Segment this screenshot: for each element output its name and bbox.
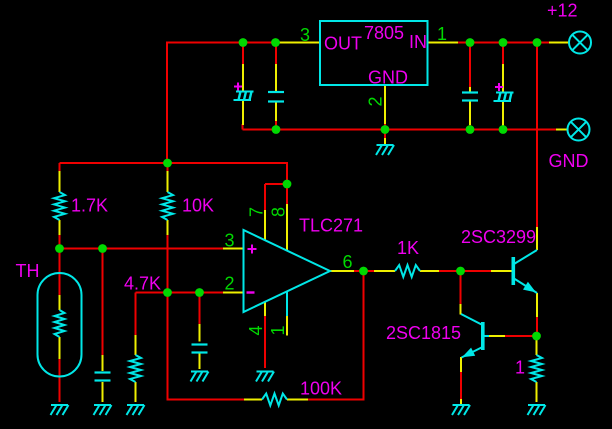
wire C3 top lead red xyxy=(242,43,244,66)
wire pin 8 upper segment xyxy=(286,184,288,205)
svg-text:2SC3299: 2SC3299 xyxy=(461,227,536,247)
label 1K xyxy=(397,238,419,258)
pin number 1 regulator IN xyxy=(437,24,447,44)
Q1 emitter diagonal xyxy=(514,279,537,294)
svg-text:GND: GND xyxy=(368,68,408,88)
junction node 5 xyxy=(533,38,542,47)
label GND terminal xyxy=(549,151,589,171)
wire TH bottom lead yellow xyxy=(59,337,61,360)
op-amp U1 triangle xyxy=(244,230,331,312)
wire ground rail y=129.5 xyxy=(243,129,558,131)
pin number 3 regulator OUT xyxy=(300,25,310,45)
junction node 6 xyxy=(272,125,281,134)
svg-text:10K: 10K xyxy=(182,196,214,216)
wire pin 4 to ground red xyxy=(264,316,266,368)
Q2 collector diagonal xyxy=(461,314,483,325)
C6 plus sign xyxy=(495,83,503,91)
capacitor C2 xyxy=(192,345,208,353)
resistor R4 1K xyxy=(395,265,420,277)
svg-text:TH: TH xyxy=(16,261,40,281)
junction node 8 xyxy=(466,125,475,134)
resistor R8 1 ohm xyxy=(531,355,542,382)
capacitor C5 xyxy=(462,93,478,101)
svg-text:1K: 1K xyxy=(397,238,419,258)
wire pin 4 yellow upper xyxy=(264,302,266,317)
wire 4.7K top lead yellow xyxy=(135,335,137,355)
svg-text:8: 8 xyxy=(269,207,289,217)
svg-text:1: 1 xyxy=(437,24,447,44)
wire Q1 emitter lead yellow xyxy=(536,293,538,318)
wire C5 top lead red xyxy=(469,43,471,89)
wire pin 3 stub xyxy=(223,248,244,250)
op-amp minus input mark xyxy=(247,291,255,293)
wire 100K right lead yellow xyxy=(287,399,309,401)
label 2SC1815 xyxy=(386,323,461,343)
pin number 4 op-amp xyxy=(246,325,266,335)
wire C4 top lead red xyxy=(275,43,277,66)
wire 1.7K top lead yellow xyxy=(59,171,61,192)
pin number 1 op-amp xyxy=(268,325,288,335)
label OUT xyxy=(324,34,362,54)
wire output node to 1K xyxy=(354,270,375,272)
wire TH top lead yellow xyxy=(59,295,61,310)
wire C1 top lead red xyxy=(102,249,104,357)
svg-text:2: 2 xyxy=(366,96,386,106)
Q2 base stub cyan xyxy=(485,335,490,337)
junction node 18 xyxy=(532,332,541,341)
wire op-amp output stub xyxy=(330,270,355,272)
Q2 emitter diagonal xyxy=(462,347,483,358)
wire node A down to Q2 collector xyxy=(460,271,462,305)
pin number 7 op-amp xyxy=(247,207,267,217)
wire C4 bottom red bit xyxy=(275,120,277,130)
label 7805 xyxy=(364,23,404,43)
wire Q1 base stub yellow xyxy=(491,270,512,272)
wire 10K top lead red xyxy=(167,163,169,172)
wire C5 leads yellow xyxy=(469,87,471,125)
wire pin 7 upper segment xyxy=(264,184,266,211)
svg-text:OUT: OUT xyxy=(324,34,362,54)
junction node 1 xyxy=(239,38,248,47)
wire Q2 emitter ground nub yellow xyxy=(460,399,462,404)
wire C6 leads yellow xyxy=(502,64,504,126)
wire C6 top lead red xyxy=(502,43,504,66)
junction node 3 xyxy=(466,38,475,47)
label +12 xyxy=(547,1,578,21)
wire 4.7K top lead red xyxy=(135,293,137,337)
wire Q1 collector lead yellow xyxy=(536,227,538,250)
wire non-inverting net y=248.5 xyxy=(60,248,225,250)
thermistor TH outline xyxy=(38,273,82,377)
wire C2 top lead red xyxy=(199,293,201,326)
regulator U2 7805 box xyxy=(320,21,428,85)
svg-text:4: 4 xyxy=(246,325,266,335)
terminal +12 xyxy=(569,32,591,54)
ground C2 xyxy=(191,372,209,382)
wire 1K left lead yellow xyxy=(374,270,395,272)
pin 1 cyan segment xyxy=(286,292,288,317)
wire +5 rail top (vertical x=167 and horizontal y=42.5) xyxy=(167,43,276,164)
svg-text:1: 1 xyxy=(268,325,288,335)
svg-text:6: 6 xyxy=(342,252,352,272)
svg-text:3: 3 xyxy=(300,25,310,45)
wire Q2 base to node B red xyxy=(505,335,537,337)
transistor Q2 2SC1815 base bar xyxy=(481,322,485,350)
wire +5 branch y=163 to op-amp supply xyxy=(60,163,288,184)
pin number 6 op-amp xyxy=(342,252,352,272)
resistor R3 4.7K xyxy=(130,355,141,382)
wire C4 leads yellow xyxy=(275,64,277,121)
Q1 collector diagonal xyxy=(514,250,537,264)
wire 1.7K bottom lead red xyxy=(59,235,61,249)
label 4.7K xyxy=(124,274,161,294)
junction node 9 xyxy=(499,125,508,134)
label TH xyxy=(16,261,40,281)
pin number 8 op-amp xyxy=(269,207,289,217)
wire R8 bottom lead yellow xyxy=(536,382,538,402)
wire C3 bottom red bit xyxy=(242,124,244,130)
junction node 2 xyxy=(271,38,280,47)
wire 1K to node A xyxy=(439,270,461,272)
wire pin 1 stub yellow xyxy=(286,315,288,336)
junction node 11 xyxy=(283,180,292,189)
resistor R2 10K xyxy=(162,192,173,220)
thermistor TH zigzag xyxy=(55,310,65,337)
label GND regulator xyxy=(368,68,408,88)
capacitor C3 electrolytic xyxy=(234,92,254,101)
op-amp plus input mark xyxy=(248,245,257,254)
svg-text:3: 3 xyxy=(224,231,234,251)
wire +12 terminal stub yellow xyxy=(549,42,569,44)
wire 1K right lead yellow xyxy=(420,270,440,272)
wire 1.7K bottom lead yellow xyxy=(59,220,61,236)
resistor R1 1.7K xyxy=(54,192,65,220)
wire OUT pin stub 7805 xyxy=(274,42,320,44)
svg-text:7: 7 xyxy=(247,207,267,217)
svg-text:1: 1 xyxy=(515,358,525,378)
wire 4.7K bottom lead yellow xyxy=(135,382,137,402)
wire TH top lead red xyxy=(59,249,61,297)
terminal GND xyxy=(568,119,590,141)
ground 7805 xyxy=(376,145,394,155)
svg-text:2SC1815: 2SC1815 xyxy=(386,323,461,343)
svg-text:4.7K: 4.7K xyxy=(124,274,161,294)
wire 100K left lead yellow xyxy=(244,399,262,401)
ground 4.7K xyxy=(127,405,145,415)
wire node A to Q1 base red xyxy=(461,270,493,272)
wire Q1 emitter to node B red xyxy=(536,317,538,332)
wire Q2 collector lead yellow xyxy=(460,304,462,315)
wire C2 bottom lead yellow xyxy=(199,354,201,370)
junction node 12 xyxy=(55,244,64,253)
wire 10K bottom lead yellow xyxy=(167,220,169,236)
wire C1 bottom lead yellow xyxy=(102,382,104,402)
junction node 4 xyxy=(499,38,508,47)
Q2 emitter arrow xyxy=(462,348,475,358)
wire C2 top lead yellow xyxy=(199,324,201,342)
wire feedback net right xyxy=(308,271,364,400)
svg-text:GND: GND xyxy=(549,151,589,171)
resistor R5 100K xyxy=(262,394,287,406)
svg-text:2: 2 xyxy=(224,274,234,294)
svg-text:100K: 100K xyxy=(300,379,342,399)
label IN xyxy=(409,32,427,52)
wire C1 top lead yellow xyxy=(102,355,104,371)
pin number 2 regulator GND xyxy=(366,96,386,106)
pin number 3 op-amp xyxy=(224,231,234,251)
svg-text:+12: +12 xyxy=(547,1,578,21)
wire C3 leads yellow xyxy=(242,64,244,125)
wire pin 7 stub xyxy=(264,210,266,240)
wire 1.7K top lead red xyxy=(59,163,61,172)
capacitor C4 xyxy=(268,92,284,102)
junction node 10 xyxy=(163,159,172,168)
wire IN pin stub 7805 xyxy=(428,42,460,44)
ground TH xyxy=(51,405,69,415)
svg-text:7805: 7805 xyxy=(364,23,404,43)
junction node 7 xyxy=(381,125,390,134)
wire Q2 base stub yellow xyxy=(488,335,507,337)
label 100K xyxy=(300,379,342,399)
label 10K xyxy=(182,196,214,216)
Q1 emitter arrow xyxy=(523,282,536,293)
wire 7805 ground stub red xyxy=(384,130,386,140)
label 1 ohm xyxy=(515,358,525,378)
ground pin4 xyxy=(256,372,274,382)
wire pin 2 stub xyxy=(223,292,244,294)
wire Q2 emitter lead yellow xyxy=(460,357,462,373)
label TLC271 xyxy=(299,216,363,236)
svg-text:IN: IN xyxy=(409,32,427,52)
wire ground rail terminal stub yellow xyxy=(556,129,568,131)
junction node 16 xyxy=(359,267,368,276)
wire Q2 emitter to ground red xyxy=(460,372,462,400)
wire TH bottom to ground xyxy=(59,359,61,402)
wire 7805 GND pin yellow xyxy=(384,85,386,125)
label 2SC3299 xyxy=(461,227,536,247)
wire C5 bottom red bit xyxy=(469,124,471,130)
label 1.7K xyxy=(71,196,108,216)
transistor Q1 2SC3299 base bar xyxy=(512,257,516,285)
wire C6 bottom red bit xyxy=(502,125,504,130)
wire +12 net top xyxy=(458,42,550,44)
wire pin 8 stub xyxy=(286,204,288,250)
wire 10K bottom to inverting net xyxy=(167,235,169,293)
ground R8 xyxy=(528,405,546,415)
wire inverting net y=292.5 xyxy=(136,292,225,294)
junction node 13 xyxy=(98,244,107,253)
svg-text:1.7K: 1.7K xyxy=(71,196,108,216)
ground C1 xyxy=(94,405,112,415)
wire 7805 ground stub yellow xyxy=(384,138,386,144)
svg-text:TLC271: TLC271 xyxy=(299,216,363,236)
C3 plus sign xyxy=(234,83,242,91)
wire R8 top lead yellow xyxy=(536,336,538,355)
pin number 2 op-amp xyxy=(224,274,234,294)
wire feedback net left xyxy=(168,293,246,400)
capacitor C6 electrolytic xyxy=(494,93,514,102)
ground Q2 emitter xyxy=(452,405,470,415)
wire 7805 GND pin red bit xyxy=(384,124,386,130)
junction node 17 xyxy=(456,267,465,276)
junction node 14 xyxy=(163,288,172,297)
wire +12 drop to Q1 collector xyxy=(536,43,538,229)
wire 10K top lead yellow xyxy=(167,171,169,192)
wire pin7/pin8 tie bar xyxy=(265,183,287,185)
capacitor C1 xyxy=(95,373,111,381)
junction node 15 xyxy=(195,288,204,297)
